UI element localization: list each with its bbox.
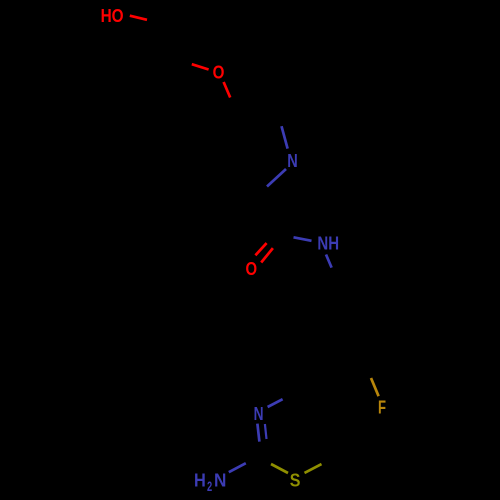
N=C2 double lineA (blue) — [257, 424, 259, 442]
wire C-N pip (blue half) — [282, 126, 288, 148]
svg-text:N: N — [214, 470, 226, 490]
C=O double line1 (red) — [255, 243, 266, 255]
svg-text:NH: NH — [317, 234, 339, 254]
wire C-F (gold half) — [371, 378, 379, 396]
svg-text:F: F — [378, 397, 386, 417]
wire H2N-C2 (blue half) — [229, 463, 246, 472]
svg-text:2: 2 — [207, 478, 212, 494]
wire C(=O)-NH (blue half) — [294, 237, 312, 241]
wire S-C6 (olive half) — [305, 464, 322, 473]
wire C2-S (olive half) — [271, 464, 288, 473]
C=O double line2 (red) — [261, 248, 273, 262]
svg-text:N: N — [287, 151, 298, 171]
wire N-C4 ring (blue half) — [268, 399, 283, 407]
wire C2-O (red half) — [192, 64, 209, 69]
N=C2 double lineB (blue) — [265, 424, 267, 439]
svg-text:HO: HO — [101, 6, 124, 26]
wire N-C pip (blue half) — [267, 169, 286, 187]
svg-text:H: H — [194, 470, 206, 490]
svg-text:O: O — [213, 62, 225, 82]
wire HO-C1 (red half) — [130, 16, 147, 20]
wire NH-Caryl (blue half) — [326, 255, 332, 268]
svg-text:N: N — [254, 404, 264, 424]
svg-text:S: S — [290, 470, 301, 490]
wire O-C3 (red half) — [224, 82, 231, 98]
svg-text:O: O — [246, 259, 258, 279]
